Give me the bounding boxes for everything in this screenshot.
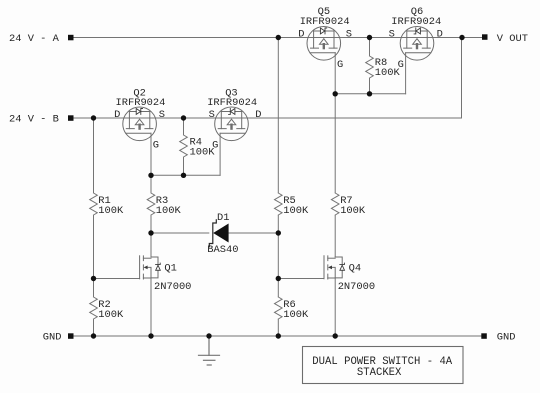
svg-text:STACKEX: STACKEX [357, 367, 402, 379]
svg-text:S: S [389, 28, 395, 40]
svg-text:V OUT: V OUT [497, 33, 528, 45]
svg-text:24 V - A: 24 V - A [9, 33, 60, 45]
wire R5-R6 branch [277, 38, 279, 337]
wire Q4 source to GND [334, 278, 336, 336]
diode D1 BAS40 [209, 220, 228, 247]
wire Q1 gate lead [94, 278, 140, 280]
svg-text:GND: GND [43, 332, 62, 344]
resistor R3 100K [146, 193, 157, 215]
wire R4 branch [183, 118, 185, 175]
svg-text:2N7000: 2N7000 [154, 281, 191, 293]
wire 24V-A rail [74, 37, 483, 39]
svg-text:IRFR9024: IRFR9024 [300, 16, 350, 28]
wire Q6 gate drop [405, 53, 407, 94]
svg-text:G: G [398, 59, 404, 71]
title box [303, 347, 464, 384]
wire D1 row [151, 232, 209, 234]
wire 24V-B rail [74, 117, 462, 119]
terminal squares [68, 34, 488, 339]
resistor R8 100K [364, 56, 375, 78]
wire gate bus Q2-Q3 [151, 174, 220, 176]
svg-text:D: D [114, 109, 120, 121]
svg-text:24 V - B: 24 V - B [9, 113, 59, 125]
resistor R5 100K [273, 193, 284, 215]
wire R8 branch [369, 38, 371, 94]
op P-MOSFET Q6 IRFR9024 (mirrored) [400, 27, 434, 61]
wire Q4 gate lead [278, 278, 324, 280]
resistor R6 100K [273, 297, 284, 319]
svg-text:G: G [212, 140, 218, 152]
wire R1-R2 branch [93, 118, 95, 336]
svg-text:IRFR9024: IRFR9024 [207, 97, 257, 109]
svg-text:G: G [153, 140, 159, 152]
wire Q1 source to GND [150, 278, 152, 336]
wire Q3 gate drop [219, 133, 221, 175]
svg-text:GND: GND [497, 332, 516, 344]
resistor R4 100K [178, 135, 189, 157]
svg-text:S: S [209, 109, 215, 121]
svg-text:IRFR9024: IRFR9024 [391, 16, 441, 28]
op P-MOSFET Q5 IRFR9024 [307, 27, 341, 61]
svg-text:D: D [437, 28, 443, 40]
svg-text:IRFR9024: IRFR9024 [116, 97, 166, 109]
resistor R7 100K [330, 193, 341, 215]
resistor R1 100K [88, 193, 99, 215]
transistor Q4 2N7000 [324, 256, 345, 279]
svg-text:2N7000: 2N7000 [338, 281, 375, 293]
svg-text:Q4: Q4 [349, 263, 361, 275]
svg-text:G: G [337, 59, 343, 71]
svg-text:D: D [298, 28, 304, 40]
wire Q5 gate / R7 / Q4 drain branch [334, 53, 336, 257]
wire GND rail [74, 335, 482, 337]
resistor R2 100K [88, 297, 99, 319]
ground symbol [199, 336, 220, 365]
transistor Q1 2N7000 [140, 256, 161, 279]
svg-text:D: D [255, 109, 261, 121]
svg-text:S: S [159, 109, 165, 121]
wire gate bus Q5-Q6 [335, 93, 405, 95]
op P-MOSFET Q3 IRFR9024 (mirrored) [215, 107, 249, 141]
wire Q2 gate / R3 / Q1 drain branch [150, 133, 152, 257]
svg-text:S: S [346, 28, 352, 40]
op P-MOSFET Q2 IRFR9024 [123, 107, 157, 141]
wire B-rail riser to VOUT node [461, 38, 463, 119]
svg-text:Q1: Q1 [164, 263, 176, 275]
